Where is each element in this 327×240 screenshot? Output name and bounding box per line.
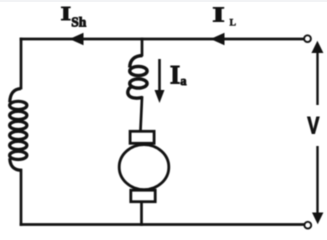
wire left lower	[20, 170, 23, 225]
terminal top-right	[304, 35, 311, 42]
wire top	[21, 38, 303, 41]
voltage arrow down	[312, 146, 323, 224]
svg-text:I: I	[212, 3, 224, 27]
wire coil to top brush	[141, 98, 143, 131]
label I_Sh	[61, 3, 87, 30]
brush bottom	[131, 190, 155, 202]
brush top	[130, 131, 154, 143]
voltage arrow up	[311, 41, 323, 105]
terminal bottom-right	[304, 222, 311, 229]
svg-text:I: I	[170, 61, 180, 90]
armature series coil (middle)	[128, 56, 147, 99]
wire left upper	[20, 39, 23, 88]
arrow I_Sh	[70, 33, 84, 46]
motor armature	[119, 145, 169, 190]
svg-text:L: L	[230, 18, 237, 29]
label I_a	[170, 61, 187, 90]
svg-text:Sh: Sh	[71, 15, 87, 30]
shunt field winding (left coil)	[10, 89, 27, 171]
label I_L	[212, 3, 236, 29]
svg-text:I: I	[61, 3, 71, 25]
wire bottom brush to bottom wire	[140, 203, 143, 225]
arrow I_L	[211, 33, 225, 46]
arrow I_a	[155, 59, 165, 103]
svg-text:V: V	[307, 112, 320, 139]
wire bottom	[21, 223, 304, 226]
wire armature branch top	[141, 39, 144, 55]
svg-text:a: a	[180, 74, 187, 88]
